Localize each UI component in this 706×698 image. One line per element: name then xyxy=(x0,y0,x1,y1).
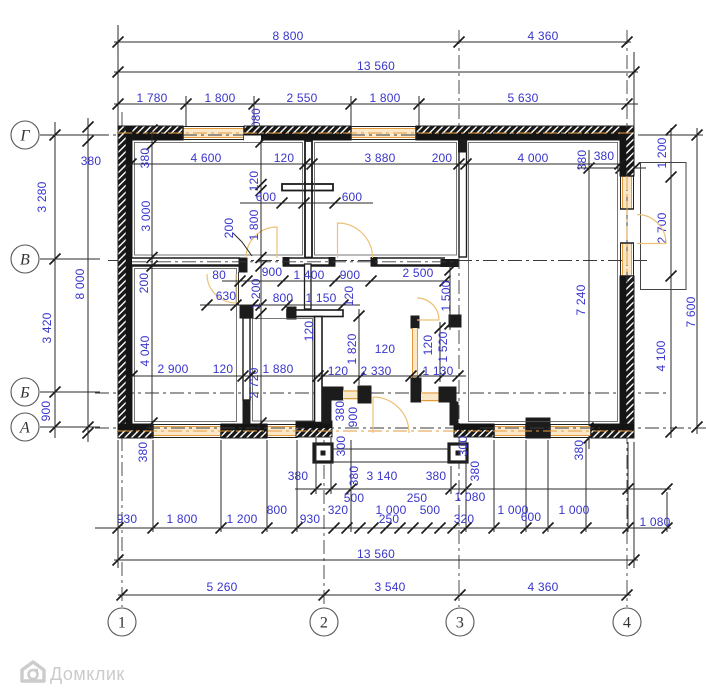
svg-text:900: 900 xyxy=(340,268,361,282)
svg-text:380: 380 xyxy=(426,469,447,483)
svg-text:4 100: 4 100 xyxy=(654,340,668,371)
svg-text:380: 380 xyxy=(138,148,152,169)
svg-text:500: 500 xyxy=(420,503,441,517)
watermark logo xyxy=(22,662,44,681)
axis circle B xyxy=(11,378,39,406)
axis line 3 xyxy=(458,30,460,607)
bottom axes dim row xyxy=(118,594,631,596)
wall WC left below xyxy=(305,264,312,309)
wall corridor T-bar xyxy=(287,310,343,317)
svg-text:380: 380 xyxy=(594,149,615,163)
axis circle 2 xyxy=(310,608,338,636)
bottom wall segments xyxy=(118,424,153,438)
svg-text:900: 900 xyxy=(39,401,53,422)
svg-text:900: 900 xyxy=(346,407,360,428)
svg-text:В: В xyxy=(20,252,30,269)
axis dash over top windows xyxy=(183,134,244,136)
cross stub dims xyxy=(240,202,373,204)
svg-text:3: 3 xyxy=(456,615,464,632)
porch columns xyxy=(314,444,332,462)
bottom chain row xyxy=(95,527,671,529)
svg-text:5 630: 5 630 xyxy=(507,91,538,105)
axis circle V xyxy=(11,245,39,273)
door bedroom1 xyxy=(207,274,236,303)
svg-text:2 500: 2 500 xyxy=(402,266,433,280)
right terrace outline xyxy=(641,163,687,290)
wall V jamb1 xyxy=(239,258,247,272)
svg-text:1 520: 1 520 xyxy=(436,331,450,362)
wall living room left 200 xyxy=(459,140,467,257)
svg-text:5 260: 5 260 xyxy=(206,580,237,594)
window niche notch xyxy=(244,136,261,141)
svg-text:Домклик: Домклик xyxy=(50,664,125,684)
svg-text:120: 120 xyxy=(421,335,435,356)
door bath right xyxy=(338,223,373,258)
bottom mid chain xyxy=(132,375,466,377)
svg-text:200: 200 xyxy=(432,151,453,165)
right dim 7600 xyxy=(696,128,698,434)
svg-text:3 140: 3 140 xyxy=(366,469,397,483)
svg-text:300: 300 xyxy=(334,436,348,457)
svg-text:А: А xyxy=(19,420,30,437)
svg-text:600: 600 xyxy=(521,510,542,524)
right wall top xyxy=(620,126,634,176)
right window 1 xyxy=(623,176,632,209)
chain x453 xyxy=(449,266,451,330)
wall kitchen right jamb xyxy=(411,316,419,328)
svg-text:4: 4 xyxy=(623,615,631,632)
svg-text:1 080: 1 080 xyxy=(454,490,485,504)
svg-text:120: 120 xyxy=(342,286,356,307)
svg-text:200: 200 xyxy=(222,218,236,239)
axis line A xyxy=(95,427,706,429)
interior chain x261 xyxy=(260,140,262,423)
window top W2 xyxy=(351,129,416,138)
svg-text:1 780: 1 780 xyxy=(136,91,167,105)
wall cross horizontal xyxy=(282,184,333,191)
svg-text:3 000: 3 000 xyxy=(139,200,153,231)
wall pier kitchen right xyxy=(449,315,461,327)
left dim chain xyxy=(54,122,56,438)
tambour wall right of door xyxy=(411,378,421,402)
svg-text:3 880: 3 880 xyxy=(364,151,395,165)
tambour window right xyxy=(421,392,439,402)
wall V piece3 xyxy=(371,258,445,266)
porch slab xyxy=(332,448,449,450)
svg-text:13 560: 13 560 xyxy=(357,547,395,561)
kitchen door frame orange xyxy=(413,328,418,378)
axis circle 4 xyxy=(613,608,641,636)
axis circle 1 xyxy=(108,608,136,636)
axis V chain xyxy=(222,280,449,282)
left wall xyxy=(118,126,132,438)
svg-text:1 080: 1 080 xyxy=(639,515,670,529)
top wall xyxy=(118,126,183,140)
axis circle G xyxy=(11,121,39,149)
axis dash over right windows xyxy=(626,170,628,282)
axis V dashes over wall xyxy=(132,261,455,263)
svg-text:900: 900 xyxy=(262,265,283,279)
svg-text:8 000: 8 000 xyxy=(73,268,87,299)
wall corridor stem xyxy=(315,317,323,423)
svg-text:Г: Г xyxy=(19,128,30,145)
svg-text:380: 380 xyxy=(81,154,102,168)
svg-text:320: 320 xyxy=(454,512,475,526)
svg-text:120: 120 xyxy=(375,342,396,356)
right window 2 xyxy=(623,243,632,276)
tambour right wall down xyxy=(450,402,458,425)
svg-text:380: 380 xyxy=(575,150,589,171)
interior top chain xyxy=(130,163,620,165)
svg-text:1 820: 1 820 xyxy=(345,333,359,364)
interior left chain xyxy=(151,126,153,438)
svg-text:4 360: 4 360 xyxy=(527,580,558,594)
axis line B xyxy=(95,392,668,394)
wall bedroom2 right xyxy=(238,272,240,305)
svg-text:3 540: 3 540 xyxy=(374,580,405,594)
svg-text:630: 630 xyxy=(216,289,237,303)
svg-text:2 550: 2 550 xyxy=(286,91,317,105)
room finish lines xyxy=(135,143,303,256)
svg-text:1: 1 xyxy=(118,615,126,632)
axis circle A xyxy=(11,413,39,441)
svg-text:930: 930 xyxy=(117,512,138,526)
right dim chain xyxy=(670,128,672,438)
svg-text:250: 250 xyxy=(379,512,400,526)
svg-text:1 800: 1 800 xyxy=(369,91,400,105)
door terrace xyxy=(637,215,666,244)
door entry xyxy=(373,397,409,433)
svg-text:4 040: 4 040 xyxy=(138,335,152,366)
axis line 1 xyxy=(121,112,123,607)
sill axis bottom xyxy=(118,430,634,432)
svg-text:1 150: 1 150 xyxy=(305,291,336,305)
svg-text:930: 930 xyxy=(300,512,321,526)
svg-text:4 360: 4 360 xyxy=(527,29,558,43)
axis circle 3 xyxy=(446,608,474,636)
svg-text:7 600: 7 600 xyxy=(684,296,698,327)
axis line V xyxy=(108,260,648,262)
top dim 8800/4360 xyxy=(114,41,631,43)
svg-text:8 800: 8 800 xyxy=(272,29,303,43)
svg-text:3 280: 3 280 xyxy=(35,181,49,212)
svg-text:120: 120 xyxy=(328,364,349,378)
svg-text:1 200: 1 200 xyxy=(655,137,669,168)
svg-text:3 420: 3 420 xyxy=(40,312,54,343)
svg-text:1 800: 1 800 xyxy=(204,91,235,105)
svg-text:380: 380 xyxy=(136,442,150,463)
tambour left wall down xyxy=(323,400,331,423)
mid verticals xyxy=(358,309,360,385)
svg-text:380: 380 xyxy=(347,466,361,487)
svg-text:120: 120 xyxy=(302,321,316,342)
svg-text:4 600: 4 600 xyxy=(190,151,221,165)
svg-text:7 240: 7 240 xyxy=(574,284,588,315)
tambour pier right xyxy=(439,387,456,402)
svg-text:600: 600 xyxy=(342,190,363,204)
svg-text:600: 600 xyxy=(256,190,277,204)
sill axis right xyxy=(626,176,628,276)
svg-text:300: 300 xyxy=(456,436,470,457)
wall cross vertical 120 xyxy=(305,141,312,258)
top dim 13560 xyxy=(114,71,638,73)
axis line G xyxy=(95,134,668,136)
svg-text:2 330: 2 330 xyxy=(360,364,391,378)
tambour window left xyxy=(343,390,358,400)
right dim 7240 xyxy=(588,150,590,449)
svg-text:200: 200 xyxy=(137,273,151,294)
svg-text:800: 800 xyxy=(273,291,294,305)
svg-text:120: 120 xyxy=(247,171,261,192)
axis dash over bottom windows xyxy=(146,427,305,429)
svg-text:4 000: 4 000 xyxy=(517,151,548,165)
svg-text:2: 2 xyxy=(320,615,328,632)
svg-text:380: 380 xyxy=(468,461,482,482)
svg-text:120: 120 xyxy=(213,362,234,376)
svg-text:1 400: 1 400 xyxy=(293,268,324,282)
svg-text:380: 380 xyxy=(333,401,347,422)
door bath left xyxy=(246,227,277,258)
top dim chain xyxy=(114,103,638,105)
svg-text:380: 380 xyxy=(572,440,586,461)
svg-text:2 900: 2 900 xyxy=(157,362,188,376)
svg-text:1 880: 1 880 xyxy=(262,362,293,376)
svg-text:800: 800 xyxy=(267,503,288,517)
svg-text:120: 120 xyxy=(274,151,295,165)
svg-text:Б: Б xyxy=(19,385,30,402)
sill axis top xyxy=(118,132,634,134)
svg-text:380: 380 xyxy=(288,469,309,483)
left dim 8000 xyxy=(87,118,89,442)
axis line 4 xyxy=(626,30,628,607)
svg-text:1 000: 1 000 xyxy=(558,503,589,517)
tambour north row xyxy=(323,387,343,400)
porch dim row xyxy=(295,488,671,490)
tambour pier left xyxy=(358,386,371,403)
svg-text:1 200: 1 200 xyxy=(226,512,257,526)
svg-text:1 130: 1 130 xyxy=(422,364,453,378)
door kitchen xyxy=(417,298,439,320)
wall V corner right xyxy=(441,260,458,267)
bottom dim 13560 xyxy=(114,559,638,561)
right wall bottom xyxy=(620,276,634,438)
window top W1 xyxy=(183,129,244,138)
axis line 2 xyxy=(323,415,325,607)
svg-text:320: 320 xyxy=(328,503,349,517)
svg-text:1 500: 1 500 xyxy=(439,280,453,311)
svg-text:1 800: 1 800 xyxy=(166,512,197,526)
wall V double segments xyxy=(132,258,240,266)
wall V piece2 xyxy=(283,258,335,266)
svg-text:80: 80 xyxy=(212,268,226,282)
svg-text:13 560: 13 560 xyxy=(357,59,395,73)
svg-text:1 800: 1 800 xyxy=(247,209,261,240)
